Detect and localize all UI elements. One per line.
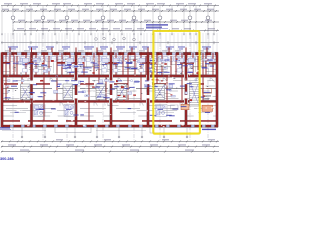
party walls (thick red verticals): [1, 52, 219, 127]
blue note right-bottom of plan: [202, 129, 216, 130]
red accents: [7, 59, 209, 102]
extra horizontal partition lines: [2, 60, 217, 117]
dimension line D1 (top): [1, 3, 219, 6]
upper red partition segments: [2, 62, 217, 67]
interior wall lower: [2, 100, 218, 102]
door gaps in party walls: [30, 81, 188, 99]
bottom dimension line B3: [1, 150, 219, 153]
canopy line above plan: [1, 41, 219, 44]
secondary red verticals: [6, 53, 214, 121]
witness stubs to wall: [2, 33, 217, 52]
small circles row: [21, 128, 188, 138]
coordinate label bottom-left (blue): [0, 157, 14, 161]
dimension line D4: [13, 28, 219, 31]
windows in bottom wall: [10, 125, 215, 128]
yellow highlight rectangle: [153, 31, 200, 134]
bottom dimension line B1: [1, 140, 219, 142]
fine partition verticals upper rooms: [3, 57, 213, 78]
room labels above plan (blue): [5, 46, 211, 51]
porch stubs above wall: [10, 48, 208, 53]
dark speckle details: [5, 59, 215, 101]
lower red wall (broken): [2, 120, 218, 122]
inner face line of top wall: [2, 56, 218, 58]
fixture strip under top wall: [4, 57, 217, 62]
lower bathroom clusters (blue): [34, 105, 168, 117]
white speckle texture overlay: [4, 54, 215, 128]
top wall piers: [1, 52, 217, 55]
orange boxes right of highlight: [171, 89, 213, 112]
corridor red segments: [4, 83, 204, 85]
stairs blocks: [21, 83, 200, 107]
terrace outlines below plan: [2, 127, 200, 133]
blue note left-bottom of plan: [0, 127, 11, 129]
grid line bubbles: [11, 16, 210, 141]
svg-text:300.286: 300.286: [0, 157, 14, 161]
witness lines from dims down: [1, 6, 214, 35]
lavender fixtures upper rooms: [6, 59, 214, 98]
windows in top wall: [7, 52, 215, 55]
dimension line D3: [13, 20, 219, 23]
bottom exterior wall: [2, 125, 218, 128]
blue annotation above highlight: [146, 24, 168, 28]
bottom dimension line B2: [1, 144, 219, 147]
lower thin partitions: [6, 108, 214, 112]
door swing arcs: [28, 58, 213, 106]
interior wall band mid-upper: [2, 75, 218, 78]
entrance door circles above wall: [95, 37, 136, 41]
bathroom clusters near party walls (upper): [23, 58, 195, 72]
text above B1: [56, 139, 215, 140]
dimension line D2: [1, 9, 219, 12]
blue room text specks: [5, 60, 214, 117]
top exterior wall: [2, 52, 218, 55]
interior wall band mid: [2, 88, 218, 90]
